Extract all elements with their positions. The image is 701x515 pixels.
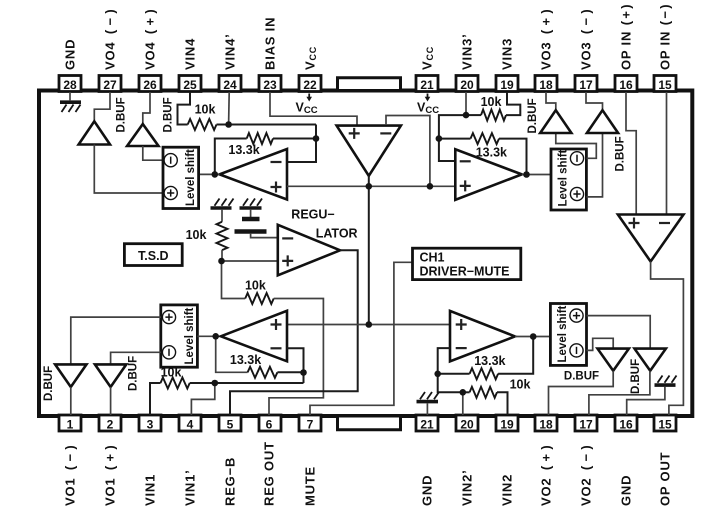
Vcc arrow pin 21: [425, 94, 431, 102]
svg-text:19: 19: [500, 78, 514, 92]
resistor R3 10k (VIN3): [481, 110, 506, 121]
minus sign U7: [659, 222, 670, 224]
wire pin15 OP IN- to power amp: [666, 92, 668, 214]
wire LS1 minus row to buffer T2b: [111, 352, 161, 364]
svg-text:28: 28: [63, 78, 77, 92]
svg-text:1: 1: [67, 417, 74, 431]
wire node to R10: [463, 391, 470, 393]
plus sign U1: [349, 128, 360, 139]
wire pin20 to node VIN3': [465, 92, 467, 115]
svg-text:D.BUF: D.BUF: [630, 359, 642, 394]
wire R2 left end to CH4 output: [215, 139, 247, 175]
svg-text:VO1 (−): VO1 (−): [62, 444, 77, 506]
svg-text:VIN2: VIN2: [499, 474, 514, 506]
wire R9 left to CH2 minus chain: [438, 373, 470, 375]
wire LS3 minus row to buffer T18: [556, 133, 597, 158]
buffer D.BUF Ta (VO2+): [598, 349, 629, 371]
svg-text:10k: 10k: [161, 366, 182, 380]
svg-text:10k: 10k: [195, 103, 216, 117]
buffer D.BUF T18 (pin 18): [540, 110, 571, 133]
pin 17 bottom: [575, 415, 597, 431]
svg-text:23: 23: [263, 78, 277, 92]
junction dot regulator plus: [218, 258, 225, 265]
resistor R8 10k (VIN1): [161, 378, 190, 389]
svg-text:BIAS IN: BIAS IN: [262, 17, 277, 70]
junction dot VIN2' node: [460, 389, 467, 396]
junction dot VIN1 node: [212, 380, 219, 387]
level shift LS1 (bottom left): [161, 305, 198, 367]
wire bottom bus (bias to CH1/CH2 plus inputs): [287, 324, 450, 326]
svg-text:16: 16: [619, 417, 633, 431]
pin 27: [99, 76, 121, 92]
svg-text:20: 20: [460, 78, 474, 92]
svg-text:Level shift: Level shift: [184, 307, 196, 364]
pin 18 top: [535, 76, 557, 92]
buffer D.BUF T2 (pin 26): [127, 124, 158, 146]
ground at pin 28: [60, 92, 81, 112]
resistor R7 13.3k (CH1 feedback): [248, 367, 278, 378]
pin 19 bottom: [496, 415, 518, 431]
minus sign U2: [282, 237, 293, 239]
wire bias output vertical: [368, 176, 370, 325]
wire pin25 jog to resistor R1: [178, 92, 191, 125]
resistor R10 10k (VIN2): [470, 387, 497, 398]
resistor R4 13.3k (CH3 feedback): [471, 133, 500, 144]
capacitor C1 (regulator B): [235, 219, 267, 232]
svg-text:REG OUT: REG OUT: [261, 441, 276, 506]
svg-text:21: 21: [420, 78, 434, 92]
svg-text:REGU−: REGU−: [291, 208, 334, 222]
pin 5: [219, 415, 241, 431]
block CH1 DRIVER-MUTE: [413, 248, 521, 279]
wire CH1 minus node to VIN1 node: [215, 382, 304, 384]
wire node VIN3' to R3: [466, 114, 481, 116]
resistor R1 10k (VIN4): [188, 119, 217, 130]
wire node VIN3' to CH3 minus input: [439, 115, 466, 161]
wire C1 to regulator minus input: [251, 234, 278, 238]
pin 2: [99, 415, 121, 431]
junction dot CH2 output: [530, 333, 537, 340]
svg-text:22: 22: [303, 78, 317, 92]
level shift LS4 (top left): [163, 147, 199, 208]
svg-text:VO4 (+): VO4 (+): [142, 8, 157, 70]
pin 20 bottom: [456, 415, 478, 431]
wire pin24 to node VIN4': [228, 92, 231, 125]
wire R10 to pin 19: [497, 392, 508, 415]
svg-text:10k: 10k: [186, 228, 207, 242]
wire LS2 plus row to buffer Tb: [587, 316, 651, 349]
minus sign U3: [271, 347, 282, 349]
svg-text:D.BUF: D.BUF: [43, 366, 55, 401]
wire MUTE pin 7 to CH1 driver-mute block: [310, 262, 413, 415]
wire LS2 minus row to buffer Ta: [587, 338, 614, 350]
svg-text:26: 26: [143, 78, 157, 92]
svg-text:15: 15: [658, 78, 672, 92]
junction dot VIN3': [463, 112, 470, 119]
wire CH2 minus input chain: [438, 348, 463, 392]
svg-text:D.BUF: D.BUF: [615, 136, 627, 171]
wire pin17 to T17: [586, 92, 603, 110]
svg-text:LATOR: LATOR: [316, 227, 358, 241]
pin 16 top: [615, 76, 637, 92]
resistor R9 13.3k (CH2 feedback): [470, 368, 499, 379]
wire T1b to pin 1: [70, 387, 72, 415]
plus sign U7: [629, 218, 640, 229]
svg-text:GND: GND: [62, 39, 77, 70]
wire R6 to pin 6 REG OUT: [269, 299, 323, 416]
buffer D.BUF T1b (pin 1): [55, 364, 86, 387]
svg-text:13.3k: 13.3k: [474, 354, 505, 368]
svg-text:19: 19: [500, 417, 514, 431]
pin 6: [259, 415, 281, 431]
svg-text:10k: 10k: [510, 377, 531, 391]
level shift LS3 (top right): [551, 149, 586, 210]
resistor R6 10k horizontal (regulator divider): [245, 293, 274, 304]
ground above capacitor C1: [240, 199, 263, 218]
svg-text:17: 17: [579, 417, 593, 431]
svg-text:D.BUF: D.BUF: [564, 371, 599, 383]
plus sign U2: [282, 255, 293, 266]
buffer D.BUF T2b (pin 2): [95, 364, 126, 387]
package index notch (bottom): [338, 418, 401, 430]
wire node VIN4' to CH4 feedback corner: [229, 124, 316, 126]
wire R1 to node VIN4': [217, 124, 229, 126]
wire CH4 minus input branch: [288, 125, 317, 163]
wire R3 jog to pin 19: [506, 92, 520, 115]
junction dot CH2 13.3k left: [434, 371, 441, 378]
pin 16 bottom: [615, 415, 637, 431]
wire regulator plus node down to R6: [222, 261, 246, 299]
svg-text:17: 17: [579, 78, 593, 92]
junction dot CH3 13.3k left: [436, 135, 443, 142]
label REGULATOR: [291, 208, 357, 241]
wire bias buffer minus feedback: [386, 116, 430, 187]
svg-text:24: 24: [223, 78, 237, 92]
pin 15 bottom: [654, 415, 676, 431]
svg-text:MUTE: MUTE: [302, 466, 317, 506]
svg-text:GND: GND: [419, 475, 434, 506]
plus sign U6: [456, 319, 467, 330]
wire top bus (bias output to CH4/CH3 plus inputs): [287, 185, 456, 187]
svg-text:OP IN (−): OP IN (−): [657, 4, 672, 70]
ground above vertical 10k (regulator): [211, 199, 234, 222]
wire T2b to pin 2: [110, 387, 112, 415]
wire VIN2' node to pin 20: [462, 392, 464, 415]
wire VIN1' pin 4 jog to node: [191, 383, 214, 415]
op-amp U4 CH4 (left-pointing): [220, 149, 288, 200]
svg-text:GND: GND: [618, 475, 633, 506]
svg-text:VO2 (−): VO2 (−): [578, 444, 593, 506]
pin 21 top: [416, 76, 438, 92]
pin 20 top: [456, 76, 478, 92]
svg-text:Level shift: Level shift: [185, 149, 197, 206]
svg-text:10k: 10k: [481, 95, 502, 109]
pin 26: [139, 76, 161, 92]
junction dot CH1 output: [212, 333, 219, 340]
svg-text:VO3 (+): VO3 (+): [538, 8, 553, 70]
svg-text:15: 15: [658, 417, 672, 431]
IC package outline: [39, 91, 692, 417]
svg-text:VIN3’: VIN3’: [459, 33, 474, 70]
pin 21 bottom: [416, 415, 438, 431]
junction dot bias feedback top bus: [427, 183, 434, 190]
svg-text:13.3k: 13.3k: [228, 143, 259, 157]
svg-text:6: 6: [266, 417, 273, 431]
pin 28: [59, 76, 81, 92]
op-amp U2 regulator (right-pointing): [278, 225, 340, 275]
svg-text:D.BUF: D.BUF: [128, 356, 140, 391]
junction dot VIN4': [225, 121, 232, 128]
op-amp U1 bias buffer (down-pointing): [337, 126, 401, 176]
wire pin18 to T18: [546, 92, 556, 110]
pin 22: [299, 76, 321, 92]
wire R5 to regulator plus node: [221, 250, 223, 261]
svg-text:18: 18: [539, 78, 553, 92]
op-amp U7 power amp (down-pointing): [618, 215, 684, 262]
op-amp U3 CH1 (left-pointing): [221, 311, 287, 362]
wire CH1 output to LS1: [197, 335, 220, 337]
wire R8 to node and pin 3: [150, 383, 215, 415]
junction dot CH4 13.3k right: [313, 135, 320, 142]
svg-text:VO4 (−): VO4 (−): [102, 8, 117, 70]
svg-text:2: 2: [107, 417, 114, 431]
svg-text:D.BUF: D.BUF: [162, 97, 174, 132]
svg-text:10k: 10k: [245, 279, 266, 293]
wire Tb output to pin 17: [589, 371, 650, 415]
pin 17 top: [575, 76, 597, 92]
resistor R5 10k vertical (regulator bias): [217, 222, 228, 250]
wire U7 output to pin 15 OP OUT: [651, 262, 684, 416]
resistor R2 13.3k (CH4 feedback): [247, 133, 273, 144]
wire pin26 to buffer T2: [143, 92, 150, 124]
minus sign U4: [271, 161, 282, 163]
svg-text:D.BUF: D.BUF: [116, 97, 128, 132]
pin 19 top: [496, 76, 518, 92]
svg-text:VIN4’: VIN4’: [222, 33, 237, 70]
svg-text:3: 3: [147, 417, 154, 431]
wire pin23 BIAS IN to bias buffer plus: [270, 92, 357, 125]
level shift LS2 (bottom right): [550, 304, 586, 366]
plus sign U4: [271, 182, 282, 193]
svg-text:21: 21: [420, 417, 434, 431]
pin 3: [139, 415, 161, 431]
svg-text:25: 25: [183, 78, 197, 92]
wire T1 output to level-shift LS4 plus: [94, 145, 163, 194]
wire CH2 output to LS2: [515, 336, 550, 338]
wire LS1 plus row to buffer T1b: [71, 317, 161, 364]
svg-text:7: 7: [307, 417, 314, 431]
svg-text:OP OUT: OP OUT: [657, 452, 672, 506]
svg-text:4: 4: [187, 417, 194, 431]
junction dot CH4 output: [212, 171, 219, 178]
wire CH2 feedback drop: [498, 337, 533, 374]
package index notch (top): [338, 78, 401, 89]
junction dot CH1 13.3k right: [300, 369, 307, 376]
svg-text:18: 18: [539, 417, 553, 431]
wire R7 right to CH1 minus input: [277, 348, 303, 383]
T.S.D block: [124, 244, 182, 266]
plus sign U3: [271, 319, 282, 330]
wire R4 right end to CH3 output: [499, 139, 527, 175]
svg-text:Level shift: Level shift: [558, 149, 570, 206]
op-amp U5 CH3 (right-pointing): [455, 149, 522, 200]
minus sign U5: [460, 160, 471, 162]
op-amp U6 CH2 (right-pointing): [450, 311, 515, 362]
junction dot bias output top bus: [366, 183, 373, 190]
wire CH1 feedback drop: [216, 336, 248, 372]
svg-text:27: 27: [103, 78, 117, 92]
wire T2 output to level-shift LS4 minus: [143, 146, 163, 160]
pin 24: [219, 76, 241, 92]
svg-text:13.3k: 13.3k: [230, 353, 261, 367]
plus sign U5: [460, 180, 471, 191]
minus sign U1: [380, 132, 391, 134]
wire regulator plus input: [222, 260, 278, 262]
wire R4 left end: [439, 138, 471, 140]
svg-text:VO2 (+): VO2 (+): [538, 444, 553, 506]
wire R2 right end to minus node: [273, 138, 316, 140]
wire CH3 output to level-shift LS3: [522, 174, 551, 176]
svg-text:OP IN (+): OP IN (+): [618, 4, 633, 70]
svg-text:VIN1’: VIN1’: [182, 469, 197, 506]
svg-text:T.S.D: T.S.D: [138, 249, 169, 263]
svg-text:Level shift: Level shift: [557, 305, 569, 362]
ground at pin 16 bottom: [627, 376, 677, 416]
minus sign U6: [456, 347, 467, 349]
wire LS3 plus row to buffer T17: [586, 133, 602, 197]
wire regulator output to pin 5 REG-B: [230, 250, 358, 415]
svg-text:5: 5: [227, 417, 234, 431]
svg-text:16: 16: [619, 78, 633, 92]
pin 7: [299, 415, 321, 431]
pin 25: [179, 76, 201, 92]
wire pin16 OP IN+ to power amp: [626, 92, 636, 214]
svg-text:20: 20: [460, 417, 474, 431]
wire Ta output to pin 18: [549, 371, 614, 415]
buffer D.BUF T1 (pin 27): [79, 121, 110, 144]
svg-text:DRIVER−MUTE: DRIVER−MUTE: [420, 265, 510, 279]
pin 18 bottom: [535, 415, 557, 431]
svg-text:VIN1: VIN1: [142, 474, 157, 506]
Vcc arrow pin 22: [306, 94, 312, 102]
buffer D.BUF T17 (pin 17): [587, 110, 618, 133]
pin 4: [179, 415, 201, 431]
svg-text:REG−B: REG−B: [222, 457, 237, 506]
wire pin27 to buffer T1: [94, 92, 110, 121]
pin 23: [259, 76, 281, 92]
svg-text:VIN2’: VIN2’: [459, 469, 474, 506]
svg-text:VIN4: VIN4: [182, 38, 197, 70]
svg-text:CH1: CH1: [420, 251, 445, 265]
svg-text:VIN3: VIN3: [499, 38, 514, 70]
ground at pin 21 bottom: [417, 392, 440, 415]
svg-text:VO3 (−): VO3 (−): [578, 8, 593, 70]
junction dot bias output bottom bus: [366, 321, 373, 328]
svg-text:VO1 (+): VO1 (+): [102, 444, 117, 506]
buffer D.BUF Tb (VO2-): [635, 349, 666, 371]
svg-text:D.BUF: D.BUF: [527, 98, 539, 133]
junction dot CH3 output: [523, 171, 530, 178]
pin 15 top: [654, 76, 676, 92]
wire CH4 output to level-shift LS4: [199, 173, 220, 175]
pin 1: [59, 415, 81, 431]
